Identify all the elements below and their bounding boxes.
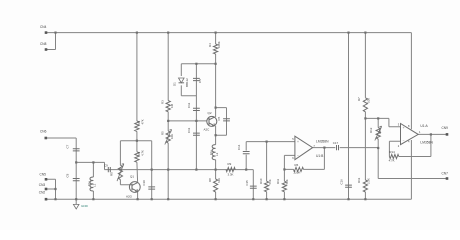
svg-text:56K: 56K	[285, 179, 289, 184]
svg-text:C14: C14	[237, 144, 241, 150]
svg-text:A2C: A2C	[204, 128, 211, 132]
svg-text:R8: R8	[208, 178, 212, 182]
svg-text:CN5: CN5	[40, 173, 47, 177]
svg-text:C4: C4	[198, 79, 202, 83]
svg-text:Q1: Q1	[130, 175, 134, 179]
svg-text:R10: R10	[259, 178, 263, 184]
svg-text:L1: L1	[92, 183, 96, 187]
svg-text:10K: 10K	[378, 129, 382, 134]
svg-text:10u: 10u	[209, 150, 213, 155]
svg-text:LM358N: LM358N	[316, 140, 329, 144]
svg-text:CN2: CN2	[39, 191, 46, 195]
svg-text:CN6: CN6	[40, 130, 47, 134]
svg-text:10u: 10u	[87, 181, 91, 186]
svg-text:CN8: CN8	[40, 42, 47, 46]
svg-text:R14: R14	[389, 150, 395, 154]
svg-text:C8: C8	[66, 173, 70, 177]
svg-text:64K: 64K	[217, 178, 221, 183]
svg-text:BB112: BB112	[185, 78, 189, 87]
svg-text:R3: R3	[161, 100, 165, 104]
svg-text:C13: C13	[187, 127, 191, 133]
svg-text:C7: C7	[66, 144, 70, 148]
svg-text:CN3: CN3	[39, 183, 46, 187]
svg-text:R9: R9	[228, 162, 232, 166]
svg-text:4.7K: 4.7K	[141, 150, 145, 156]
svg-text:56K: 56K	[268, 179, 272, 184]
svg-text:CN4: CN4	[40, 25, 47, 29]
svg-text:R5: R5	[110, 172, 114, 176]
svg-text:C5: C5	[217, 116, 221, 120]
svg-text:R11: R11	[276, 179, 280, 184]
svg-text:47K: 47K	[141, 119, 145, 124]
svg-text:C9: C9	[104, 164, 108, 168]
svg-text:4.7K: 4.7K	[389, 159, 395, 163]
svg-text:10K: 10K	[366, 98, 370, 103]
svg-text:1M: 1M	[170, 103, 174, 108]
svg-text:C12: C12	[187, 102, 191, 108]
svg-text:R12: R12	[369, 127, 373, 133]
svg-text:A2G: A2G	[126, 195, 133, 199]
svg-text:+: +	[297, 140, 299, 144]
svg-text:10K: 10K	[170, 134, 174, 139]
svg-text:CN7: CN7	[442, 172, 449, 176]
svg-text:R4: R4	[208, 43, 212, 47]
svg-text:Q2: Q2	[208, 111, 212, 115]
svg-text:3.3K: 3.3K	[228, 172, 234, 176]
svg-text:2.2K: 2.2K	[366, 178, 370, 184]
svg-text:U1:A: U1:A	[420, 124, 428, 128]
svg-text:R7: R7	[357, 97, 361, 101]
svg-text:−: −	[403, 139, 405, 143]
svg-text:D1: D1	[173, 82, 177, 86]
svg-text:+: +	[403, 126, 405, 130]
svg-text:C16: C16	[339, 179, 343, 185]
svg-text:100K: 100K	[217, 41, 221, 48]
svg-text:C15: C15	[245, 180, 249, 186]
svg-text:GND: GND	[81, 204, 89, 208]
svg-text:R6: R6	[295, 163, 299, 167]
svg-text:220K: 220K	[294, 170, 301, 174]
svg-text:C10: C10	[142, 180, 146, 186]
svg-text:R5: R5	[161, 131, 165, 135]
svg-text:R13: R13	[357, 177, 361, 183]
svg-text:LM358N: LM358N	[420, 141, 433, 145]
svg-text:U1:B: U1:B	[316, 154, 324, 158]
svg-text:C17: C17	[333, 141, 339, 145]
svg-text:CN9: CN9	[442, 126, 449, 130]
svg-text:L2: L2	[215, 152, 219, 156]
svg-text:−: −	[297, 154, 299, 158]
